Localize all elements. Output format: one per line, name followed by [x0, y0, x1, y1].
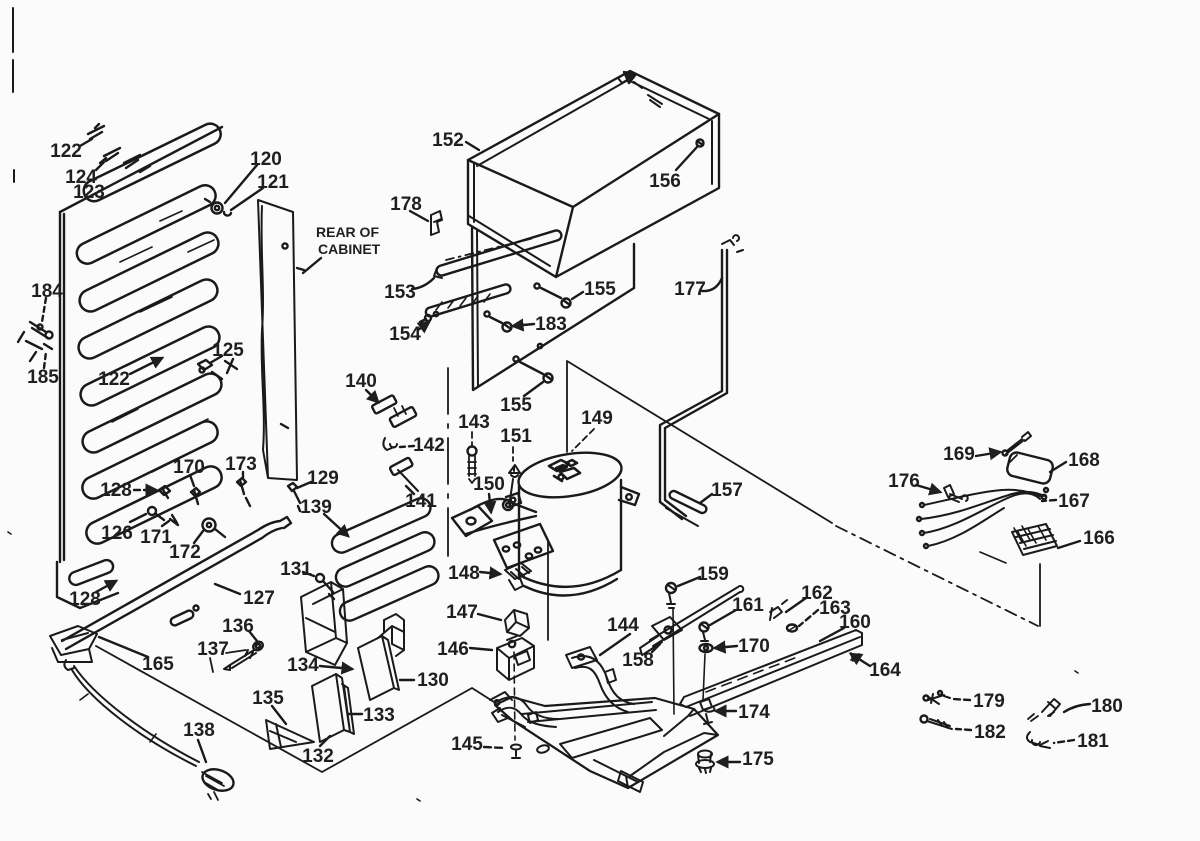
- svg-text:141: 141: [405, 491, 437, 512]
- leader 176 arrow: [916, 485, 940, 492]
- leader 178: [410, 211, 428, 221]
- svg-text:121: 121: [257, 172, 289, 193]
- svg-text:128: 128: [100, 480, 132, 501]
- svg-text:138: 138: [183, 720, 215, 741]
- washer 170b: [700, 644, 713, 652]
- condenser panel top edge: [60, 127, 222, 212]
- clip near 125: [198, 359, 237, 379]
- svg-text:128: 128: [69, 589, 101, 610]
- leader 156: [676, 147, 697, 170]
- plates 133 132: [312, 674, 354, 742]
- leader 142: [400, 446, 414, 447]
- svg-text:120: 120: [250, 149, 282, 170]
- leader 125: [210, 356, 222, 363]
- leader 146: [470, 648, 492, 650]
- group boundary vertical: [547, 540, 549, 640]
- screw 137: [252, 640, 265, 652]
- leader 180: [1064, 704, 1090, 712]
- screw 123 top: [124, 155, 150, 172]
- leader 167: [1042, 500, 1056, 501]
- tie rod: [650, 586, 743, 646]
- svg-text:122: 122: [50, 141, 82, 162]
- leader 144: [600, 634, 630, 655]
- svg-text:132: 132: [302, 746, 334, 767]
- svg-text:126: 126: [101, 523, 133, 544]
- leader 183 arrow: [513, 324, 534, 326]
- leader 159: [678, 577, 700, 586]
- svg-text:175: 175: [742, 749, 774, 770]
- svg-text:171: 171: [140, 527, 172, 548]
- svg-text:158: 158: [622, 650, 654, 671]
- leader 170: [190, 475, 194, 486]
- leader 174 arrow: [716, 710, 736, 712]
- svg-text:155: 155: [500, 395, 532, 416]
- bolt 171: [170, 515, 178, 525]
- screw 182: [921, 716, 928, 723]
- dash line vertical 448: [447, 368, 449, 556]
- svg-text:131: 131: [280, 559, 312, 580]
- svg-text:170: 170: [738, 636, 770, 657]
- pipe 177: [660, 250, 727, 519]
- leader 147: [478, 614, 501, 620]
- serpentine coil 139 loop3: [337, 563, 442, 623]
- relay box: [301, 582, 347, 665]
- svg-text:142: 142: [413, 435, 445, 456]
- leader 127: [215, 584, 240, 594]
- box 152 inner seams: [469, 80, 712, 266]
- leader 150 arrow: [489, 494, 491, 512]
- wire harness 167: [921, 490, 1044, 546]
- board hole: [282, 243, 287, 248]
- bracket 178: [431, 211, 442, 235]
- svg-text:159: 159: [697, 564, 729, 585]
- small bolt near rail: [169, 609, 194, 626]
- leader 177: [702, 278, 722, 291]
- rail 127: [62, 517, 291, 649]
- svg-text:151: 151: [500, 426, 532, 447]
- leader 138: [198, 740, 206, 762]
- condenser tube loop 7: [79, 418, 222, 503]
- rail 154: [425, 283, 512, 317]
- condenser tube loop 2: [73, 182, 219, 268]
- nut 163: [787, 625, 797, 632]
- panel shading marks: [112, 211, 214, 472]
- leader 140: [366, 390, 378, 402]
- leader 132: [320, 736, 330, 746]
- plate hole small: [538, 344, 542, 348]
- leader 155b: [524, 382, 543, 396]
- leader 154: [418, 322, 429, 330]
- svg-text:184: 184: [31, 281, 63, 302]
- leader 133: [348, 713, 362, 715]
- leader 162: [786, 598, 806, 612]
- screw 173 under panel: [237, 478, 250, 506]
- condenser panel left edge: [60, 212, 64, 562]
- board ticks: [281, 268, 304, 428]
- screw 155b: [544, 374, 553, 383]
- svg-text:185: 185: [27, 367, 59, 388]
- svg-text:160: 160: [839, 612, 871, 633]
- leader 160: [820, 628, 844, 641]
- frame seat edge: [522, 702, 656, 722]
- svg-text:CABINET: CABINET: [318, 241, 381, 257]
- svg-text:183: 183: [535, 314, 567, 335]
- serpentine coil 139 loop2: [333, 529, 438, 589]
- svg-text:176: 176: [888, 471, 920, 492]
- leader 165: [99, 637, 148, 657]
- screw 122 top: [88, 124, 104, 139]
- line to 166: [1039, 564, 1041, 626]
- leader 121: [231, 188, 263, 210]
- grommet 147: [505, 610, 529, 636]
- pipe 177 top connector: [722, 235, 743, 252]
- leader 135: [272, 706, 286, 724]
- box 152 outline: [468, 71, 719, 277]
- box 152 top front edge: [468, 114, 719, 277]
- svg-text:143: 143: [458, 412, 490, 433]
- grommet 175: [696, 751, 714, 774]
- bolt 170 shaft: [703, 654, 705, 700]
- leader 152: [466, 142, 479, 150]
- svg-text:146: 146: [437, 639, 469, 660]
- svg-text:173: 173: [225, 454, 257, 475]
- leader 137: [210, 650, 246, 672]
- tick 164: [851, 653, 859, 661]
- leader 172: [194, 531, 203, 543]
- svg-text:161: 161: [732, 595, 764, 616]
- insulator 135: [266, 720, 314, 749]
- leader 122 top: [80, 139, 92, 146]
- axis 146-145 dash: [514, 652, 515, 740]
- leader 148 arrow: [480, 572, 500, 574]
- rail 160: [680, 630, 862, 716]
- screw 170 under panel: [191, 488, 200, 504]
- condenser tube loop 3: [76, 229, 222, 315]
- leader 184: [42, 298, 46, 322]
- bracket 150 plate: [452, 506, 492, 536]
- svg-text:150: 150: [473, 474, 505, 495]
- compressor 149 body: [515, 446, 624, 504]
- leader 164 arrow: [851, 654, 870, 666]
- leader 161: [710, 610, 736, 625]
- plate inner edge: [477, 231, 478, 387]
- rail 153: [435, 229, 562, 277]
- screw 159: [666, 583, 676, 593]
- frame foot front: [618, 771, 643, 792]
- bolt 174: [700, 699, 714, 724]
- svg-text:133: 133: [363, 705, 395, 726]
- screw 155a: [562, 299, 571, 308]
- svg-text:125: 125: [212, 340, 244, 361]
- screw 179: [927, 694, 950, 704]
- bolt at 128 arrow: [159, 486, 170, 498]
- bolt 120 121: [212, 203, 223, 214]
- compressor ear right: [619, 487, 639, 505]
- svg-text:169: 169: [943, 444, 975, 465]
- leader 139: [324, 514, 348, 536]
- tube 157: [668, 490, 707, 515]
- leader 131: [303, 572, 314, 576]
- base frame outline: [495, 697, 718, 788]
- rail 154 end rings: [425, 315, 431, 321]
- bracket on 130: [378, 614, 404, 656]
- svg-text:135: 135: [252, 688, 284, 709]
- svg-text:177: 177: [674, 279, 706, 300]
- screw 124 top: [100, 148, 120, 163]
- clip 180: [1042, 699, 1060, 716]
- condenser tube loop 1: [80, 120, 224, 205]
- svg-text:170: 170: [173, 457, 205, 478]
- svg-text:154: 154: [389, 324, 421, 345]
- screws 184 185: [18, 322, 52, 361]
- leader 166: [1058, 541, 1080, 548]
- wire hook: [64, 660, 74, 670]
- leader 168: [1050, 462, 1066, 472]
- bracket 150 arm: [466, 499, 536, 534]
- terminal block 166: [1012, 524, 1057, 555]
- screw 161: [700, 623, 709, 632]
- screw 131: [316, 574, 324, 582]
- leader 155a: [572, 292, 583, 299]
- leader 185: [44, 352, 46, 368]
- leader 173: [242, 472, 244, 478]
- screw 143: [468, 447, 477, 456]
- sensor bulb 138: [200, 766, 237, 795]
- svg-text:130: 130: [417, 670, 449, 691]
- mounting plate: [472, 228, 634, 390]
- screw 183: [503, 323, 512, 332]
- svg-text:134: 134: [287, 655, 319, 676]
- bolt 151: [509, 465, 520, 500]
- screw 145: [511, 745, 521, 758]
- frame inner slot: [560, 718, 662, 758]
- svg-text:147: 147: [446, 602, 478, 623]
- leader 136: [249, 631, 257, 641]
- condenser panel bottom foot: [57, 562, 118, 608]
- svg-text:123: 123: [73, 182, 105, 203]
- svg-text:174: 174: [738, 702, 770, 723]
- union 140 a: [372, 395, 397, 414]
- svg-text:136: 136: [222, 616, 254, 637]
- leader 153: [412, 278, 434, 289]
- leader 120: [225, 165, 257, 203]
- svg-text:180: 180: [1091, 696, 1123, 717]
- clamp 158: [640, 617, 682, 655]
- svg-text:137: 137: [197, 639, 229, 660]
- leader 126: [130, 514, 146, 522]
- svg-text:145: 145: [451, 734, 483, 755]
- screw 156: [697, 140, 704, 147]
- arrow from 122 mid: [130, 358, 162, 374]
- leader 169 arrow: [976, 452, 1000, 456]
- leader 157: [700, 494, 712, 503]
- leader rear of cabinet: [303, 258, 321, 273]
- leader 128 arrow: [134, 489, 156, 491]
- left corner foot: [492, 708, 525, 727]
- leader 170b arrow: [715, 646, 737, 648]
- capacitor plate 130: [358, 636, 399, 700]
- svg-text:152: 152: [432, 130, 464, 151]
- leader 158: [652, 644, 660, 652]
- washer 172: [203, 519, 216, 532]
- svg-text:178: 178: [390, 194, 422, 215]
- bolt 159 shaft: [673, 608, 674, 714]
- clip 142: [383, 438, 397, 450]
- bolt 129: [288, 483, 300, 511]
- svg-text:148: 148: [448, 563, 480, 584]
- wire tick: [80, 694, 156, 742]
- condenser tube loop 8: [83, 463, 226, 548]
- frame inner lines: [512, 709, 718, 788]
- relay cover 168: [1006, 451, 1054, 485]
- plug 176: [944, 485, 968, 502]
- svg-text:127: 127: [243, 588, 275, 609]
- svg-text:168: 168: [1068, 450, 1100, 471]
- serpentine coil 139 loop1: [329, 495, 434, 555]
- leader 128 low arrow: [96, 581, 116, 592]
- left arch bracket: [490, 692, 558, 727]
- leader 182: [956, 729, 971, 730]
- svg-text:181: 181: [1077, 731, 1109, 752]
- svg-text:140: 140: [345, 371, 377, 392]
- wing clip 162: [770, 600, 787, 620]
- box top clips: [618, 72, 662, 107]
- leader 163: [799, 610, 818, 626]
- rail 153 dash centerline: [446, 238, 534, 260]
- condenser tube loop 5: [77, 323, 223, 409]
- bracket 150 foot plate: [494, 524, 553, 568]
- rail 160 inner dash: [706, 656, 800, 692]
- svg-text:129: 129: [307, 468, 339, 489]
- condenser tube loop 6: [79, 370, 225, 456]
- svg-text:144: 144: [607, 615, 639, 636]
- condenser tube loop 4: [75, 276, 221, 362]
- long diagonal solid: [567, 361, 832, 523]
- leader 130: [400, 679, 414, 681]
- svg-text:166: 166: [1083, 528, 1115, 549]
- leader 181: [1054, 740, 1074, 743]
- clamp 181: [1027, 732, 1050, 748]
- leader 149 dash: [572, 429, 594, 451]
- leader 175 arrow: [718, 761, 740, 763]
- compressor ear left: [506, 493, 521, 507]
- svg-text:167: 167: [1058, 491, 1090, 512]
- compressor bottom rim: [524, 579, 617, 595]
- svg-text:182: 182: [974, 722, 1006, 743]
- capillary wire 138: [72, 666, 199, 766]
- svg-text:172: 172: [169, 542, 201, 563]
- speckles: [8, 532, 1078, 801]
- svg-text:153: 153: [384, 282, 416, 303]
- screw 169: [1006, 432, 1031, 454]
- border dash top-left: [13, 8, 14, 182]
- leader 143 dash: [471, 432, 473, 446]
- leader 134 arrow: [320, 666, 352, 669]
- svg-text:157: 157: [711, 480, 743, 501]
- leader 151 dash: [512, 447, 514, 461]
- svg-text:179: 179: [973, 691, 1005, 712]
- compressor terminal cap: [549, 460, 580, 481]
- leader 145: [484, 747, 505, 748]
- group boundary left: [96, 646, 494, 772]
- clip 148: [505, 563, 531, 590]
- svg-text:165: 165: [142, 654, 174, 675]
- washer 126: [148, 507, 156, 515]
- union 140 b: [389, 406, 417, 427]
- svg-text:164: 164: [869, 660, 901, 681]
- leader 141: [406, 486, 414, 494]
- svg-text:149: 149: [581, 408, 613, 429]
- leader 124 top: [96, 162, 104, 170]
- svg-text:REAR OF: REAR OF: [316, 224, 379, 240]
- rail 154 hatch: [436, 294, 490, 310]
- svg-text:155: 155: [584, 279, 616, 300]
- svg-text:139: 139: [300, 497, 332, 518]
- svg-text:122: 122: [98, 369, 130, 390]
- arch bracket 144: [566, 647, 634, 712]
- union 141: [389, 457, 413, 475]
- leader 129: [297, 482, 311, 488]
- rear cabinet board: [258, 200, 297, 480]
- long diagonal dashed: [836, 526, 1038, 626]
- clamp 146: [497, 638, 534, 680]
- group boundary vertical top: [566, 362, 568, 452]
- leader 179: [952, 699, 970, 700]
- frame oval hole: [536, 744, 549, 754]
- svg-text:156: 156: [649, 171, 681, 192]
- rail 127 foot: [50, 626, 97, 662]
- condenser panel bottom slot: [67, 558, 115, 587]
- leader 171: [162, 521, 169, 526]
